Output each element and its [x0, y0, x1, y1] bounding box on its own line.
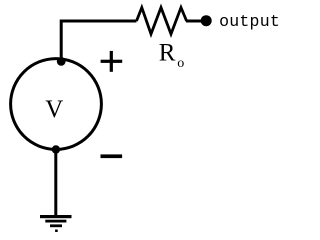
minus polarity sign — [101, 154, 123, 158]
svg-text:V: V — [45, 96, 63, 123]
node junction dot bottom of source — [52, 145, 60, 153]
resistor R1 zigzag — [137, 8, 187, 35]
plus polarity sign — [101, 51, 123, 72]
node junction dot top of source — [57, 57, 66, 66]
ground symbol — [40, 215, 72, 232]
svg-text:output: output — [219, 12, 280, 31]
svg-text:o: o — [177, 56, 184, 71]
wire from bottom of source to ground — [54, 148, 57, 216]
wire from resistor to output node — [186, 20, 202, 23]
node output terminal dot — [201, 15, 212, 26]
wire from top of source up and right to resistor — [61, 21, 136, 59]
svg-text:R: R — [159, 40, 176, 67]
voltage source V1 circle — [11, 59, 102, 150]
